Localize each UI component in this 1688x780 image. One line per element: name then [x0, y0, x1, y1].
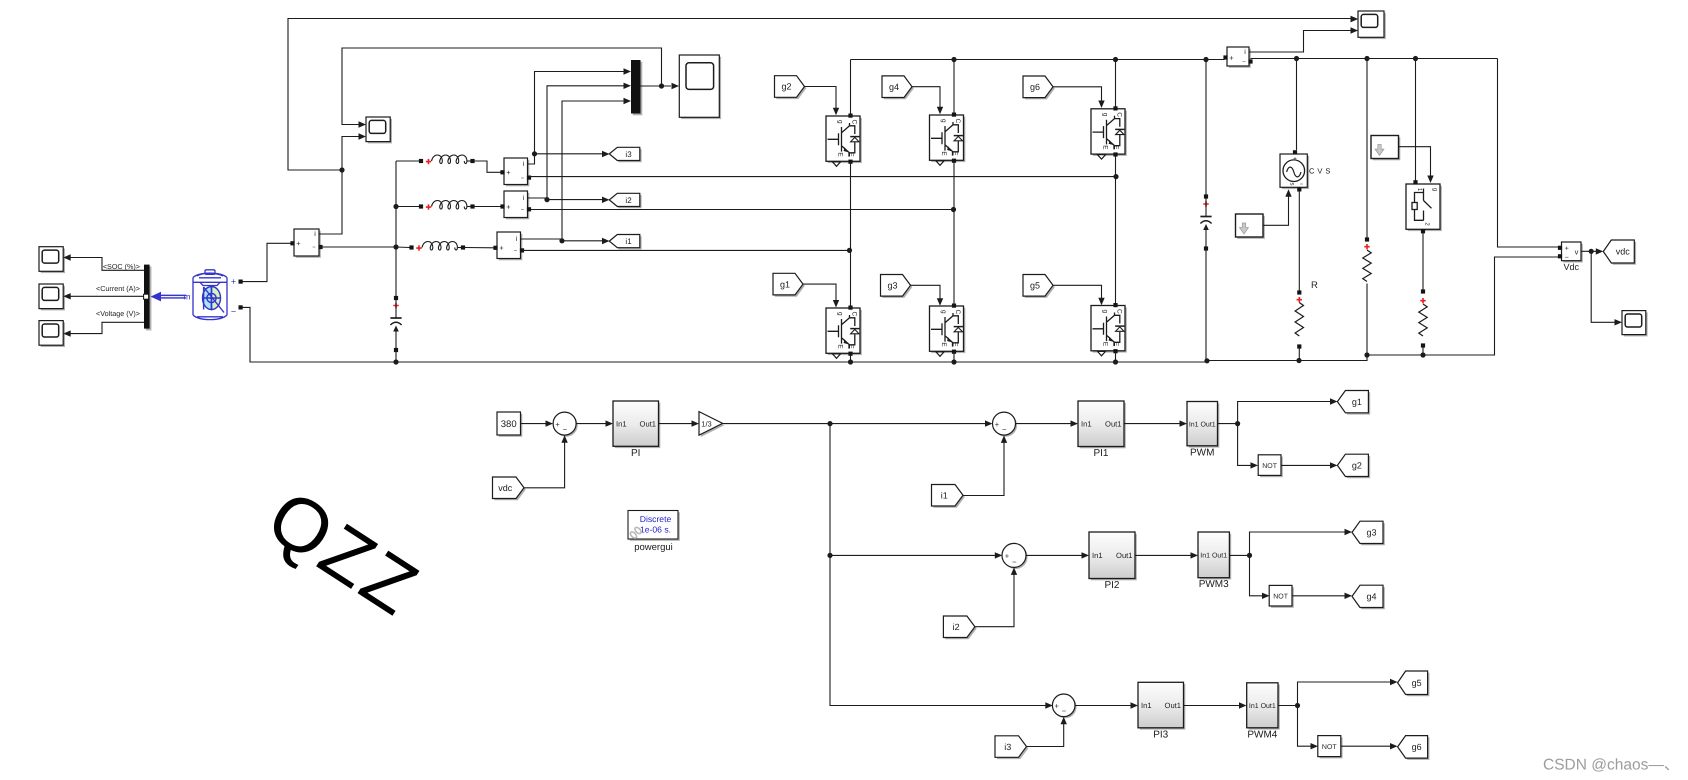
wire SOC signal: [71, 258, 145, 271]
svg-text:g2: g2: [781, 82, 791, 92]
wire i1 to mux: [562, 101, 625, 239]
wire branch vertical: [830, 424, 1048, 706]
svg-text:−: −: [312, 245, 316, 251]
wire battery current to top scope: [288, 19, 1351, 171]
svg-text:NOT: NOT: [1273, 594, 1289, 601]
svg-text:1e-06 s.: 1e-06 s.: [640, 524, 671, 534]
sum Sum3: [1054, 696, 1077, 719]
wire L3 to CM3: [474, 161, 502, 172]
current measurement CM2: [506, 193, 530, 220]
wire CM0 - to inductor rail: [320, 246, 397, 248]
wire PI to gain: [659, 423, 693, 425]
svg-text:g3: g3: [887, 281, 897, 291]
wire PWM out: [1218, 423, 1238, 425]
wire rail to CVS +: [1296, 59, 1298, 151]
svg-text:g6: g6: [1412, 742, 1422, 752]
svg-text:g: g: [837, 312, 844, 316]
svg-text:−: −: [1565, 254, 1569, 261]
wire i3 to mux: [535, 72, 626, 154]
wire leg2 top: [953, 60, 955, 115]
svg-text:g: g: [1102, 309, 1109, 313]
wire sum2 to PI2: [1026, 554, 1082, 556]
wire to small scope input2: [342, 137, 359, 171]
wire to inductor L3: [396, 160, 419, 162]
svg-text:NOT: NOT: [1262, 463, 1278, 470]
goto tag g1: [1339, 392, 1370, 414]
current measurement CM3: [506, 160, 530, 187]
svg-text:PI1: PI1: [1093, 448, 1108, 459]
goto tag g4: [1354, 587, 1385, 609]
goto tag g6: [1399, 737, 1429, 760]
svg-text:+: +: [296, 239, 301, 248]
PWM generator PWM: [1189, 403, 1220, 447]
from tag i1 (control): [933, 486, 965, 508]
wire i1 signal: [521, 239, 604, 241]
wire gain distribution: [723, 423, 987, 425]
PWM generator PWM3: [1200, 534, 1231, 580]
svg-text:+: +: [499, 244, 504, 253]
svg-text:g3: g3: [1366, 528, 1376, 538]
wire PWM4 out: [1278, 705, 1298, 707]
scope Scope_Vdc: [1624, 312, 1648, 336]
wire vdc to sum: [524, 441, 565, 488]
current measurement CM4 (load): [1229, 49, 1251, 68]
gain 1/3: [701, 413, 725, 437]
svg-text:NOT: NOT: [1322, 744, 1338, 751]
wire 380 to sum: [521, 423, 547, 425]
PWM generator PWM4: [1249, 685, 1280, 730]
wire i signal CM0: [319, 170, 342, 234]
wire g2 gate: [805, 87, 837, 111]
svg-text:<Current (A)>: <Current (A)>: [96, 284, 140, 293]
wire Current signal: [71, 295, 145, 297]
svg-text:Vdc: Vdc: [1564, 262, 1580, 272]
wire NOT3 to g6 tag: [1341, 745, 1391, 747]
capacitor C1: [394, 296, 398, 300]
goto tag g5: [1399, 673, 1429, 697]
bus wire m (blue): [158, 295, 186, 299]
svg-text:−: −: [563, 425, 568, 434]
svg-text:vdc: vdc: [1616, 247, 1631, 257]
wire leg3 midpoint: [1115, 155, 1117, 306]
sum Sum0: [555, 414, 578, 437]
wire branch row2: [830, 554, 997, 556]
wire top DC rail: [851, 59, 1225, 61]
resistor R2: [1365, 237, 1369, 241]
powergui block: [630, 512, 680, 541]
wire L2 to CM2: [474, 206, 502, 208]
from tag g2: [776, 78, 806, 100]
wire CM4 i to scope: [1249, 31, 1351, 53]
wire i1 feedback: [963, 441, 1004, 496]
wire i2 to mux: [547, 86, 625, 198]
svg-text:i1: i1: [941, 490, 948, 500]
svg-text:g: g: [940, 310, 947, 314]
wire sum3 to PI3: [1075, 705, 1131, 707]
wire battery - to bottom rail: [243, 307, 397, 362]
svg-text:E: E: [1102, 342, 1109, 347]
wire to g1 tag: [1238, 402, 1331, 424]
inductor L2: [419, 204, 423, 208]
PI controller PI1: [1080, 403, 1126, 449]
wire i2 signal: [528, 198, 604, 200]
svg-text:1/3: 1/3: [701, 420, 711, 429]
svg-text:PI2: PI2: [1104, 580, 1119, 591]
current measurement CM1: [499, 234, 523, 260]
wire PWM3 out: [1229, 554, 1249, 556]
svg-text:R: R: [1311, 280, 1318, 291]
svg-text:C: C: [954, 118, 961, 123]
svg-text:g2: g2: [1352, 461, 1362, 471]
svg-text:−: −: [1062, 707, 1067, 716]
svg-text:E: E: [1102, 145, 1109, 150]
svg-text:−: −: [521, 176, 525, 182]
wire mux to small scope input1: [342, 48, 662, 125]
from tag i2 (control): [945, 618, 977, 640]
constant 380: [499, 414, 523, 437]
from tag g1: [775, 275, 805, 297]
wire sum to PI: [576, 423, 606, 425]
svg-text:g: g: [1432, 188, 1438, 191]
wire Step2 to switch gate: [1399, 147, 1431, 178]
wire to inductor L1: [396, 246, 410, 249]
logic NOT1: [1260, 457, 1283, 478]
wire Voltage signal: [71, 322, 145, 333]
wire leg2 bottom: [953, 352, 955, 362]
svg-text:<SOC (%)>: <SOC (%)>: [103, 262, 140, 271]
svg-text:<Voltage (V)>: <Voltage (V)>: [96, 309, 140, 318]
wire to g5 tag: [1298, 682, 1391, 706]
scope Scope_SOC: [41, 249, 65, 274]
goto tag i1: [611, 236, 642, 249]
sum Sum2: [1004, 545, 1028, 569]
controlled voltage source CVS: [1282, 156, 1309, 189]
svg-text:E: E: [940, 342, 947, 347]
wire g3 gate: [911, 285, 941, 301]
svg-text:+: +: [506, 168, 511, 177]
goto tag g2: [1339, 456, 1370, 478]
wire vdc to scope: [1591, 251, 1614, 322]
wire PI1 to PWM: [1124, 423, 1180, 425]
wire leg3 bottom: [1115, 351, 1117, 362]
svg-text:+: +: [231, 277, 236, 287]
svg-text:Out1: Out1: [1116, 551, 1132, 560]
svg-text:vdc: vdc: [498, 483, 513, 493]
svg-text:PI3: PI3: [1153, 729, 1168, 740]
wire leg1 top: [850, 60, 852, 116]
sum Sum1: [994, 414, 1017, 437]
resistor R3: [1421, 289, 1425, 293]
voltage measurement Vdc: [1563, 244, 1583, 263]
wire i3 signal: [528, 154, 604, 164]
inductor L3: [419, 159, 423, 163]
capacitor C2: [1205, 60, 1207, 195]
wire i3 feedback: [1027, 722, 1064, 747]
logic NOT3: [1320, 737, 1343, 758]
svg-text:C: C: [954, 309, 961, 314]
svg-text:g: g: [1102, 113, 1109, 117]
svg-text:s: s: [1289, 183, 1295, 186]
scope Scope_Idc: [1360, 13, 1386, 39]
svg-text:C: C: [851, 311, 858, 316]
svg-text:E: E: [940, 151, 947, 156]
wire rail to Vdc +: [1498, 59, 1559, 248]
wire mux out to scope: [641, 85, 672, 87]
from tag g6: [1025, 78, 1055, 100]
svg-text:In1: In1: [1092, 551, 1103, 560]
svg-text:i2: i2: [625, 196, 632, 205]
scope Scope_Voltage: [41, 322, 65, 347]
svg-text:−: −: [231, 306, 236, 316]
svg-text:+: +: [995, 420, 1000, 429]
current measurement CM0 (battery): [296, 231, 321, 258]
wire PI3 to PWM4: [1184, 705, 1240, 707]
svg-text:In1 Out1: In1 Out1: [1249, 703, 1276, 710]
svg-text:C: C: [1116, 309, 1123, 314]
bus selector: [146, 266, 152, 330]
wire Step1 to CVS s: [1263, 195, 1289, 226]
svg-text:Out1: Out1: [1105, 419, 1121, 428]
wire L1 to CM1: [465, 247, 495, 249]
svg-text:−: −: [514, 249, 518, 255]
svg-text:−: −: [1242, 60, 1246, 66]
svg-text:In1 Out1: In1 Out1: [1189, 421, 1216, 428]
wire battery + to current measurement: [243, 243, 293, 281]
wire to NOT1: [1238, 424, 1251, 466]
step block Step2: [1373, 137, 1401, 160]
svg-text:In1: In1: [1081, 419, 1092, 428]
svg-text:g5: g5: [1030, 281, 1040, 291]
inductor L1: [409, 245, 413, 249]
svg-text:C: C: [851, 119, 858, 124]
goto tag vdc: [1605, 242, 1636, 265]
svg-text:powergui: powergui: [634, 542, 673, 553]
goto tag i2: [611, 195, 642, 208]
svg-text:Out1: Out1: [1165, 701, 1181, 710]
svg-text:380: 380: [501, 419, 517, 430]
IGBT Q1: [828, 310, 862, 355]
wire leg1 bottom: [850, 354, 852, 362]
svg-text:g1: g1: [1352, 397, 1362, 407]
svg-text:+: +: [1229, 53, 1234, 62]
goto tag g3: [1354, 523, 1385, 545]
svg-text:g: g: [837, 120, 844, 124]
svg-text:PWM3: PWM3: [1199, 579, 1229, 590]
svg-text:PWM4: PWM4: [1247, 729, 1277, 740]
wire g1 gate: [803, 284, 836, 302]
svg-text:g6: g6: [1030, 82, 1040, 92]
wire to NOT2: [1250, 555, 1263, 595]
svg-text:E: E: [837, 344, 844, 349]
svg-text:m: m: [183, 291, 190, 301]
wire CM4 - continue rail: [1251, 58, 1498, 60]
svg-text:Discrete: Discrete: [640, 514, 672, 524]
step block Step1: [1237, 216, 1265, 239]
wire g4 gate: [912, 87, 940, 109]
mux: [633, 62, 643, 116]
svg-text:i2: i2: [953, 622, 960, 632]
wire NOT1 to g2 tag: [1281, 464, 1331, 466]
svg-text:g: g: [940, 119, 947, 123]
wire g6 gate: [1053, 87, 1102, 103]
svg-text:PI: PI: [631, 448, 640, 459]
node inductor feed rail: [395, 161, 397, 298]
svg-text:g5: g5: [1412, 678, 1422, 688]
port battery -: [239, 305, 243, 309]
scope Scope_Current: [41, 286, 65, 311]
svg-text:In1: In1: [616, 419, 627, 428]
scope Scope_I3ph (large): [681, 57, 721, 119]
PI controller PI: [615, 403, 661, 448]
svg-text:PWM: PWM: [1190, 447, 1214, 458]
port battery +: [239, 280, 243, 284]
svg-text:i1: i1: [625, 237, 632, 246]
svg-text:−: −: [521, 208, 525, 214]
svg-text:g4: g4: [889, 82, 899, 92]
from tag g3: [882, 276, 912, 298]
wire rail to R2: [1366, 59, 1368, 238]
wire i2 feedback: [975, 573, 1014, 627]
wire phase2 return: [529, 209, 954, 211]
port CVS -: [1297, 187, 1301, 191]
wire leg2 midpoint: [953, 161, 955, 306]
wire NOT2 to g4 tag: [1292, 595, 1345, 597]
wire bottom rail: [396, 257, 1558, 362]
ideal switch SW: [1408, 186, 1442, 231]
svg-text:v: v: [1575, 247, 1579, 256]
svg-text:−: −: [1002, 425, 1007, 434]
wire phase3 return: [529, 176, 1116, 178]
svg-text:g1: g1: [780, 279, 790, 289]
svg-text:CVS: CVS: [1309, 166, 1333, 175]
svg-text:+: +: [506, 202, 511, 211]
svg-text:C: C: [1116, 112, 1123, 117]
IGBT Q3: [931, 308, 965, 353]
scope Scope_Iph (small): [368, 119, 392, 144]
wire switch to R3: [1422, 233, 1424, 289]
svg-text:g4: g4: [1366, 592, 1376, 602]
wire sum1 to PI1: [1016, 423, 1072, 425]
svg-text:i3: i3: [625, 150, 632, 159]
logic NOT2: [1271, 587, 1294, 608]
from tag g5: [1025, 276, 1055, 298]
wire leg3 top: [1115, 60, 1117, 109]
svg-text:In1: In1: [1141, 701, 1152, 710]
PI controller PI2: [1091, 534, 1137, 581]
wire to inductor L2: [396, 206, 419, 208]
svg-text:CSDN @chaos—、: CSDN @chaos—、: [1543, 757, 1679, 774]
PI controller PI3: [1140, 684, 1186, 730]
from tag g4: [884, 78, 914, 100]
svg-text:+: +: [1565, 246, 1569, 253]
svg-text:+: +: [1005, 552, 1010, 561]
svg-text:−: −: [1300, 182, 1304, 188]
IGBT Q2: [828, 118, 862, 163]
wire rail to switch 1: [1415, 59, 1417, 181]
battery B1: [193, 270, 227, 320]
wire CVS - to resistor R1: [1298, 192, 1300, 291]
from tag vdc: [494, 479, 526, 501]
wire PI2 to PWM3: [1135, 554, 1191, 556]
wire to NOT3: [1298, 706, 1312, 747]
svg-text:+: +: [555, 420, 560, 429]
svg-text:−: −: [1012, 557, 1017, 566]
IGBT Q5: [1093, 307, 1127, 352]
from tag i3 (control): [997, 738, 1029, 760]
wire leg1 midpoint: [850, 162, 852, 308]
wire to g3 tag: [1250, 532, 1346, 555]
svg-text:+: +: [1055, 702, 1060, 711]
svg-text:In1 Out1: In1 Out1: [1200, 553, 1227, 560]
wire Vdc v out: [1581, 250, 1598, 252]
svg-text:i3: i3: [1004, 742, 1011, 752]
wire phase1 return: [522, 249, 850, 251]
IGBT Q6: [1093, 111, 1127, 156]
svg-text:E: E: [837, 152, 844, 157]
goto tag i3: [611, 149, 642, 162]
wire g5 gate: [1053, 285, 1102, 300]
IGBT Q4: [931, 117, 965, 162]
resistor R1: [1297, 290, 1301, 294]
svg-text:Out1: Out1: [640, 419, 656, 428]
